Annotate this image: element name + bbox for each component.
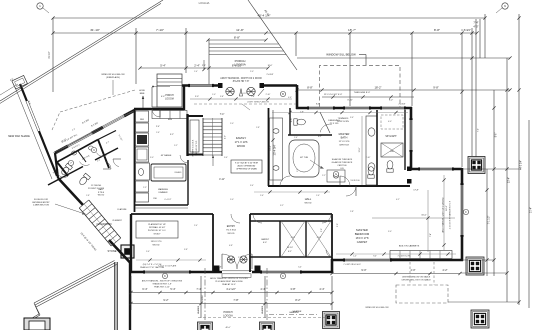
svg-text:3'-8": 3'-8" — [290, 287, 295, 291]
svg-text:4'-2": 4'-2" — [396, 199, 400, 201]
bedroom vanity — [327, 170, 345, 182]
study note box — [136, 221, 178, 238]
window master bedroom east — [461, 185, 464, 235]
svg-text:13'-4 3/4": 13'-4 3/4" — [273, 144, 277, 155]
svg-text:SUSP SCRN: SUSP SCRN — [337, 121, 349, 123]
wing diagonal windows — [68, 133, 92, 146]
svg-text:6'-1": 6'-1" — [288, 251, 292, 253]
dim extension x476 — [475, 19, 477, 169]
left porch floor — [157, 74, 182, 107]
svg-text:ARCH TRANSOM - WIDTH OF 3 WIND: ARCH TRANSOM - WIDTH OF 3 WINDOWS — [142, 280, 183, 283]
svg-text:2'-0 3/4": 2'-0 3/4" — [267, 74, 274, 76]
svg-text:2'-10": 2'-10" — [266, 94, 271, 96]
svg-text:ENTRY: ENTRY — [227, 225, 236, 228]
svg-text:PLYWOOD 16" O.C.: PLYWOOD 16" O.C. — [148, 230, 167, 232]
svg-text:9'1 X 8'04: 9'1 X 8'04 — [226, 230, 236, 232]
top second dimension line — [53, 32, 477, 34]
kitchen sink — [139, 169, 144, 176]
svg-text:PLAYERMT 96" UP: PLAYERMT 96" UP — [148, 223, 166, 226]
svg-text:DRAWER: DRAWER — [159, 191, 168, 194]
svg-text:12'1 X 12'6: 12'1 X 12'6 — [339, 141, 351, 143]
svg-text:5'-9": 5'-9" — [321, 228, 323, 232]
svg-text:2'-0": 2'-0" — [230, 123, 234, 125]
bedroom sw arc — [326, 250, 333, 257]
svg-text:2'-8": 2'-8" — [350, 211, 354, 213]
dashed gable rect — [396, 285, 448, 303]
svg-text:48" TUB: 48" TUB — [300, 157, 308, 159]
svg-text:TRANSOM HGT 1'-8": TRANSOM HGT 1'-8" — [152, 283, 172, 286]
gable leader dashes — [409, 262, 411, 285]
svg-text:7'-10": 7'-10" — [156, 28, 164, 32]
svg-text:7'-4": 7'-4" — [478, 128, 480, 132]
leader arrow 1 — [310, 160, 322, 168]
bedroom entry jambs — [407, 167, 412, 172]
svg-text:7'-4": 7'-4" — [251, 96, 255, 98]
right dim x487 — [486, 169, 488, 276]
svg-text:5'-4": 5'-4" — [298, 267, 302, 269]
closet X 2 — [307, 221, 331, 257]
stairs arrow — [212, 157, 214, 166]
svg-text:5'-0": 5'-0" — [230, 199, 234, 201]
svg-text:6'-4": 6'-4" — [142, 287, 147, 291]
svg-text:9'-2": 9'-2" — [163, 298, 168, 302]
svg-text:8'6+8'6 HR 7'-8": 8'6+8'6 HR 7'-8" — [233, 81, 250, 83]
svg-text:4'-8": 4'-8" — [229, 245, 233, 247]
svg-text:FAMILY: FAMILY — [236, 136, 246, 140]
svg-text:5'-2": 5'-2" — [174, 145, 178, 147]
built-in cabinets — [390, 251, 452, 259]
svg-text:31'-4": 31'-4" — [531, 207, 533, 213]
svg-text:8'-8": 8'-8" — [307, 86, 313, 90]
svg-text:2'-9": 2'-9" — [143, 187, 147, 189]
bath west wall — [268, 108, 270, 186]
svg-text:4'-0": 4'-0" — [410, 268, 415, 272]
svg-text:7'-4 1/2" 2 X 12 PLATE: 7'-4 1/2" 2 X 12 PLATE — [158, 265, 177, 268]
svg-text:1'-10": 1'-10" — [366, 157, 371, 159]
kitchen island — [151, 164, 186, 181]
svg-text:8'-8": 8'-8" — [234, 36, 240, 40]
svg-text:2'-0 3/4": 2'-0 3/4" — [399, 104, 406, 106]
header dashdot — [269, 314, 318, 316]
svg-text:WOOD: WOOD — [227, 233, 234, 235]
svg-text:5'-6": 5'-6" — [146, 251, 150, 253]
interior tick row bath — [272, 112, 408, 114]
svg-text:5 X 7: 5 X 7 — [317, 237, 321, 239]
bedroom interior dims — [372, 217, 455, 219]
svg-text:18'-7": 18'-7" — [348, 28, 356, 32]
svg-text:ISLAND: ISLAND — [175, 171, 182, 174]
closet divider 2 — [305, 221, 307, 257]
porch column symbol 2 — [247, 87, 255, 95]
wing partition perp 1 — [57, 162, 68, 176]
wing tag 1 — [68, 160, 73, 165]
east vanity — [366, 116, 377, 185]
svg-text:1'-4": 1'-4" — [220, 96, 224, 98]
top overall dimension line — [53, 17, 485, 19]
svg-text:B&S: B&S — [168, 119, 173, 121]
svg-text:WOOD: WOOD — [152, 245, 159, 247]
svg-text:3'-8": 3'-8" — [184, 249, 188, 251]
west wall great room — [129, 261, 131, 330]
interior tick row hall — [254, 191, 330, 193]
svg-text:1'-4": 1'-4" — [194, 71, 198, 73]
misc ticks right — [505, 167, 508, 170]
svg-text:FLATURE: FLATURE — [118, 208, 128, 211]
wall tag south — [162, 273, 167, 278]
hall north wall — [250, 213, 332, 215]
svg-text:CARPET: CARPET — [261, 238, 270, 241]
svg-text:11'-8": 11'-8" — [236, 28, 244, 32]
garage roof edge — [34, 261, 115, 304]
svg-text:WARMING: WARMING — [158, 188, 168, 191]
svg-text:17'-8": 17'-8" — [413, 190, 419, 192]
butler counter — [152, 111, 187, 119]
wing partition perp 2 — [98, 140, 109, 169]
kitchen north wall — [134, 108, 184, 111]
svg-text:3'-10": 3'-10" — [347, 100, 353, 102]
svg-text:8'-2": 8'-2" — [295, 298, 300, 302]
roof valley diagonal — [248, 0, 297, 70]
svg-text:12'-2 4'-0 3/4" 4'-0": 12'-2 4'-0 3/4" 4'-0" — [324, 94, 343, 96]
south wall posts — [214, 266, 220, 273]
audio note box — [231, 160, 262, 173]
svg-text:2'-4": 2'-4" — [194, 64, 200, 68]
kitchen door arcs — [180, 155, 188, 163]
top left corner mark — [37, 3, 43, 9]
svg-text:4'-6": 4'-6" — [288, 97, 292, 99]
closet wall x405 — [404, 110, 406, 170]
closet shelf wall — [250, 220, 332, 222]
svg-text:G: G — [335, 172, 337, 176]
closet south wall — [250, 256, 332, 258]
porch column symbol 1 — [226, 87, 234, 95]
dim extension x186 — [185, 28, 187, 73]
svg-text:FLUSH FLOOR: FLUSH FLOOR — [34, 199, 49, 201]
svg-text:1'-8 3/4": 1'-8 3/4" — [461, 28, 471, 32]
entry centerline 2 — [266, 268, 268, 330]
svg-text:2'-2": 2'-2" — [238, 257, 242, 259]
dim extension x472 — [471, 28, 473, 156]
west porch column — [121, 245, 134, 258]
sill line y58 — [297, 57, 510, 59]
bath south wall — [268, 185, 410, 187]
svg-text:HOSE: HOSE — [139, 90, 145, 92]
powder toilet 2 — [78, 173, 90, 186]
kitchen south counter — [135, 204, 188, 206]
svg-text:9'-6": 9'-6" — [224, 157, 228, 159]
bottom dim line 2 — [131, 303, 332, 305]
svg-text:MASTER: MASTER — [339, 132, 350, 136]
interior tick row bedroom — [336, 253, 456, 255]
svg-text:BETWEEN ENTRY: BETWEEN ENTRY — [32, 202, 50, 204]
svg-text:7'-8": 7'-8" — [233, 298, 238, 302]
north wall master bedroom — [410, 168, 462, 171]
right dim x494 — [493, 90, 495, 276]
svg-text:10'-10": 10'-10" — [287, 247, 293, 249]
east step wall x297 — [296, 85, 299, 109]
svg-text:4'-11": 4'-11" — [219, 179, 225, 181]
entry door arcs — [222, 254, 237, 269]
svg-text:3'-6": 3'-6" — [350, 117, 354, 119]
entry west wall — [212, 214, 214, 272]
svg-text:11' CELING: 11' CELING — [91, 185, 102, 187]
svg-text:6'-4 1/2": 6'-4 1/2" — [165, 199, 172, 201]
svg-text:12'-4": 12'-4" — [270, 145, 272, 150]
svg-text:PEAK AT 10'-6": PEAK AT 10'-6" — [222, 283, 236, 286]
garage corner pillar — [24, 318, 50, 330]
svg-text:SHELVES 16" O.C.: SHELVES 16" O.C. — [196, 140, 198, 156]
svg-text:12'-6": 12'-6" — [359, 147, 361, 152]
svg-text:AUDIO OPENING AT: AUDIO OPENING AT — [238, 165, 257, 168]
svg-text:7'-1 1/2": 7'-1 1/2" — [489, 216, 491, 225]
porch west wall — [114, 262, 117, 330]
dim extension x136 — [135, 28, 137, 84]
svg-text:7'-4": 7'-4" — [430, 233, 432, 237]
left dim extension line — [52, 18, 54, 92]
svg-text:& MBR SECTION: & MBR SECTION — [33, 205, 49, 207]
svg-text:3'-2": 3'-2" — [280, 205, 284, 207]
svg-text:16'-0": 16'-0" — [421, 215, 427, 217]
svg-text:6'-2": 6'-2" — [318, 136, 322, 138]
svg-text:BEDROOM: BEDROOM — [355, 232, 370, 236]
svg-text:ARCH TRANSOM - WIDTH OF 2 DOOR: ARCH TRANSOM - WIDTH OF 2 DOORS — [210, 277, 248, 280]
svg-text:7'2 X 13'6: 7'2 X 13'6 — [330, 123, 340, 125]
west gallery wall x184 — [183, 86, 185, 110]
svg-text:16'-0": 16'-0" — [446, 205, 448, 211]
svg-text:2'-2": 2'-2" — [322, 175, 326, 177]
svg-text:3'-0": 3'-0" — [388, 231, 392, 233]
svg-text:WINDOW SILL BELOW: WINDOW SILL BELOW — [101, 74, 125, 76]
interior tick row study — [136, 259, 206, 261]
entry centerline — [204, 268, 206, 330]
east wall master bedroom — [461, 168, 464, 261]
entry doors opening — [222, 270, 252, 273]
east wall upper x411 — [410, 107, 413, 170]
bottom porch dashed — [198, 317, 330, 319]
bedroom west wall — [331, 214, 333, 260]
svg-text:4'-2 1/2": 4'-2 1/2" — [226, 287, 236, 291]
top small dimension line — [208, 39, 266, 41]
bedroom door arc — [346, 186, 356, 196]
svg-text:ARCH TRANSOM - WIDTH OF 2 DOOR: ARCH TRANSOM - WIDTH OF 2 DOOR — [220, 77, 262, 80]
svg-text:PEAK HGT 2'-10": PEAK HGT 2'-10" — [154, 286, 170, 289]
svg-text:HEADER: HEADER — [261, 305, 264, 314]
svg-text:2'-4": 2'-4" — [194, 225, 198, 227]
gallery window — [190, 84, 212, 87]
north wall master bath — [296, 107, 412, 110]
wing south diagonal wall — [58, 178, 83, 205]
svg-text:1'-8": 1'-8" — [86, 195, 90, 197]
dim extension x350 — [349, 33, 351, 106]
entry threshold — [222, 274, 251, 278]
svg-text:GLAM ON TUB DECK: GLAM ON TUB DECK — [332, 161, 353, 164]
svg-text:3'-1 1/2": 3'-1 1/2" — [241, 93, 248, 95]
bottom ext line x201 — [200, 276, 202, 318]
wing door arcs french — [105, 161, 111, 169]
dim extension x296 — [295, 33, 297, 56]
right dim x529 — [528, 120, 530, 308]
svg-text:LOGGIA: LOGGIA — [234, 63, 246, 67]
right dim x519 — [518, 14, 520, 305]
window south wall 2 — [262, 271, 300, 274]
west vanity — [270, 118, 283, 180]
svg-text:DW: DW — [153, 198, 156, 200]
svg-text:WOOD: WOOD — [304, 203, 311, 205]
svg-text:4'-9": 4'-9" — [225, 135, 227, 139]
bottom right dim line — [332, 273, 460, 275]
wc room — [289, 108, 291, 135]
svg-text:7'-0 3/4" 8'-0 HC: 7'-0 3/4" 8'-0 HC — [397, 256, 411, 258]
hall door arcs — [253, 214, 262, 223]
svg-text:K: K — [164, 274, 166, 278]
closet X 1 — [281, 221, 305, 257]
dim extension x462 — [461, 33, 463, 167]
svg-text:16'0 X 17'8: 16'0 X 17'8 — [356, 236, 369, 240]
svg-text:WOOD: WOOD — [237, 144, 245, 148]
svg-text:LIGHT SHELF ABOVE: LIGHT SHELF ABOVE — [247, 101, 270, 104]
svg-text:5'-4": 5'-4" — [170, 287, 175, 291]
svg-text:NEW RAF SHADE: NEW RAF SHADE — [8, 134, 30, 138]
svg-text:LOGGIA: LOGGIA — [199, 1, 210, 5]
porch steps top — [209, 43, 279, 45]
bottom ornate right — [323, 312, 340, 329]
svg-text:HEATER: HEATER — [293, 310, 302, 313]
ne ornate column — [468, 157, 485, 174]
svg-text:CLEMENT: CLEMENT — [112, 220, 122, 222]
wing second interior wall — [48, 167, 83, 186]
svg-text:CENTER WINDOW ON GABLE: CENTER WINDOW ON GABLE — [402, 276, 431, 279]
right top corner mark — [502, 3, 508, 9]
bottom right ornate — [471, 310, 489, 328]
svg-text:7'-4": 7'-4" — [220, 114, 225, 116]
svg-text:CER TILE: CER TILE — [337, 165, 347, 167]
svg-text:STONE: STONE — [108, 249, 117, 253]
svg-text:HEADER: HEADER — [197, 305, 200, 314]
bottom porch column 1 — [198, 322, 213, 330]
dim line y97 — [322, 96, 414, 98]
wing partition perp 3 — [78, 151, 86, 162]
wing hall arcs — [57, 174, 67, 178]
svg-text:3'-4": 3'-4" — [250, 185, 254, 187]
svg-text:SKYLIGHT: SKYLIGHT — [385, 136, 397, 138]
svg-text:(FIREPLACE): (FIREPLACE) — [106, 76, 120, 79]
bottom porch column 2 — [260, 322, 275, 330]
wing dim line — [60, 128, 100, 150]
south wall great room — [130, 271, 333, 274]
dim extension x485 — [484, 14, 486, 58]
window master bedroom south — [345, 259, 390, 262]
svg-text:6'-8": 6'-8" — [218, 267, 222, 269]
svg-text:R TILE: R TILE — [98, 192, 105, 194]
study north wall — [131, 213, 213, 215]
svg-text:BUILT IN CABINETS: BUILT IN CABINETS — [399, 245, 420, 248]
svg-text:WOOD: WOOD — [98, 195, 105, 197]
svg-text:9'-8": 9'-8" — [433, 86, 439, 90]
right dim x507 — [506, 58, 508, 302]
north wall gallery — [182, 84, 222, 87]
svg-text:CENTER BED- EXIT ON GABLE: CENTER BED- EXIT ON GABLE — [401, 279, 431, 282]
svg-text:LOGGIA: LOGGIA — [165, 98, 174, 101]
svg-text:K: K — [282, 274, 284, 278]
svg-text:WINDOW SILL BELOW: WINDOW SILL BELOW — [326, 53, 356, 57]
svg-text:48" RANGE: 48" RANGE — [161, 154, 172, 157]
svg-text:DRYWALL 05 3/4": DRYWALL 05 3/4" — [149, 226, 166, 229]
linen closet — [381, 143, 403, 157]
svg-text:9'-0": 9'-0" — [361, 268, 366, 272]
svg-text:5'-8 X 6'-10: 5'-8 X 6'-10 — [350, 180, 359, 182]
veranda bay window box — [12, 75, 28, 89]
svg-text:9'-2": 9'-2" — [389, 100, 394, 102]
veranda window band — [20, 84, 57, 176]
window master bedroom north — [420, 168, 452, 171]
bath tags — [333, 171, 338, 176]
svg-text:3'-2": 3'-2" — [170, 134, 174, 136]
family dim x273 — [272, 110, 274, 186]
svg-text:2'-0": 2'-0" — [250, 71, 254, 73]
svg-text:6'-0": 6'-0" — [263, 242, 267, 244]
svg-text:10'-0": 10'-0" — [268, 65, 273, 67]
roof line upper-left — [0, 0, 163, 101]
bedroom toilet — [368, 167, 374, 179]
window east upper — [410, 120, 413, 150]
bottom ext line x332 — [331, 276, 333, 310]
hall toilet — [387, 161, 393, 173]
wall tag east — [463, 209, 468, 214]
pantry cabinet — [190, 120, 199, 152]
svg-text:CER TILE: CER TILE — [339, 145, 349, 147]
kitchen cabinets — [136, 111, 149, 122]
svg-text:5'-2": 5'-2" — [297, 168, 299, 172]
svg-text:9 1/2" SQS BY 3 1/4" HIGH: 9 1/2" SQS BY 3 1/4" HIGH — [235, 163, 259, 165]
bottom dim line 1 — [131, 292, 332, 294]
right dim ticks horizontal — [462, 168, 519, 170]
wing interior wall parallel — [57, 140, 98, 163]
svg-text:5 X 7: 5 X 7 — [291, 237, 295, 239]
svg-text:40'-0": 40'-0" — [225, 327, 230, 329]
master tub — [289, 140, 319, 177]
leader arrow 2 — [242, 104, 250, 110]
svg-text:BIBB: BIBB — [140, 93, 145, 95]
bottom ext line x131 — [130, 276, 132, 310]
garage roof corner — [34, 303, 39, 314]
svg-text:5'-4": 5'-4" — [160, 64, 166, 68]
wing dashed roof line — [52, 112, 60, 130]
svg-text:18'-2": 18'-2" — [374, 86, 381, 90]
svg-text:TRIMMERS: TRIMMERS — [338, 118, 349, 120]
svg-text:PLUS ARM REST EACH SIDE: PLUS ARM REST EACH SIDE — [215, 280, 243, 283]
wc door arc — [320, 124, 332, 132]
powder sink — [72, 151, 77, 155]
entry top arc — [231, 214, 240, 223]
svg-text:UPPER END OF DRAIN: UPPER END OF DRAIN — [236, 168, 257, 171]
dashed roof rect master — [320, 66, 401, 108]
svg-text:44'-3 3/4": 44'-3 3/4" — [521, 160, 523, 170]
svg-text:17'1 X 13'6: 17'1 X 13'6 — [235, 140, 248, 144]
gallery dim leader — [153, 86, 170, 88]
wing tag 2 — [91, 147, 96, 152]
svg-text:2'-6": 2'-6" — [260, 195, 264, 197]
wing west jog wall — [55, 153, 58, 178]
svg-text:8'-8": 8'-8" — [434, 28, 440, 32]
window master bath 2 — [345, 107, 369, 110]
svg-text:31'-10": 31'-10" — [90, 28, 100, 32]
svg-text:4'-0": 4'-0" — [388, 121, 392, 123]
wing north-east diagonal wall — [55, 110, 135, 153]
svg-text:2'-4": 2'-4" — [156, 126, 160, 128]
svg-text:WINDOW SILL BELOW: WINDOW SILL BELOW — [365, 307, 389, 309]
svg-text:1'-2": 1'-2" — [353, 256, 357, 258]
bottom ext line x265 — [264, 276, 266, 318]
